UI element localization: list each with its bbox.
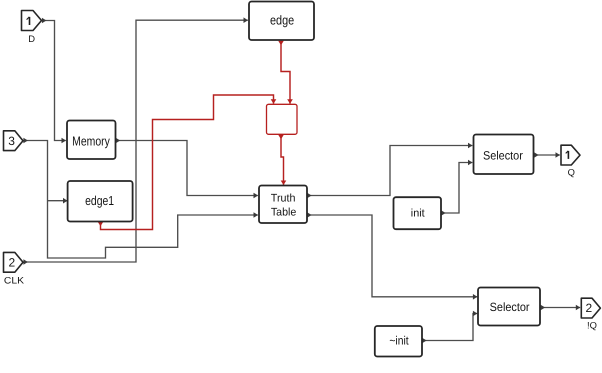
svg-text:Truth: Truth (271, 193, 296, 205)
red wire edge to red block (281, 41, 290, 104)
svg-text:edge1: edge1 (85, 193, 114, 208)
outport 2 !Q (581, 298, 600, 318)
wire Truth Table out1 to Selector in1 (307, 146, 472, 196)
inport 1 D (22, 11, 42, 31)
inport 2 CLK (4, 252, 24, 272)
wire Selector to outport Q (534, 154, 560, 156)
block red (delay) (267, 104, 298, 134)
wire Truth Table out2 to Selector2 in1 (307, 215, 477, 297)
block Selector bottom (478, 288, 540, 326)
block Memory (67, 121, 116, 160)
outport 1 Q (561, 145, 580, 165)
svg-text:3: 3 (8, 134, 15, 148)
wire Selector2 to outport !Q (541, 307, 580, 309)
svg-text:D: D (28, 33, 35, 44)
svg-text:CLK: CLK (4, 275, 25, 286)
red wire edge1 to red block (101, 95, 274, 230)
block init (394, 197, 442, 229)
red wire red block to Truth Table (281, 135, 284, 185)
svg-text:Table: Table (271, 206, 297, 218)
svg-text:~init: ~init (389, 334, 409, 348)
svg-text:!Q: !Q (587, 319, 597, 330)
svg-text:Selector: Selector (490, 300, 530, 314)
wire init to Selector in2 (441, 163, 472, 214)
wire port3 to Truth Table input 2 (24, 141, 258, 259)
block Truth Table (259, 186, 307, 224)
svg-text:2: 2 (585, 301, 592, 315)
wire D to Memory (42, 21, 66, 141)
svg-text:init: init (411, 208, 425, 220)
block edge (249, 2, 314, 41)
wire Memory to Truth Table input 1 (116, 141, 258, 196)
wire ~init to Selector2 in2 (422, 314, 477, 341)
svg-text:Memory: Memory (72, 133, 110, 148)
wire CLK to edge (24, 20, 248, 262)
block Selector top (474, 135, 534, 175)
svg-text:edge: edge (270, 13, 294, 28)
block ~init (375, 326, 422, 357)
digit inport 1 (27, 17, 30, 25)
block edge1 (68, 181, 133, 222)
wire branch port3 to edge1 (48, 200, 68, 202)
inport 3 (4, 131, 24, 151)
svg-text:Selector: Selector (483, 148, 523, 162)
svg-text:2: 2 (8, 256, 15, 270)
digit outport 1 (566, 151, 569, 159)
svg-text:Q: Q (568, 166, 575, 177)
